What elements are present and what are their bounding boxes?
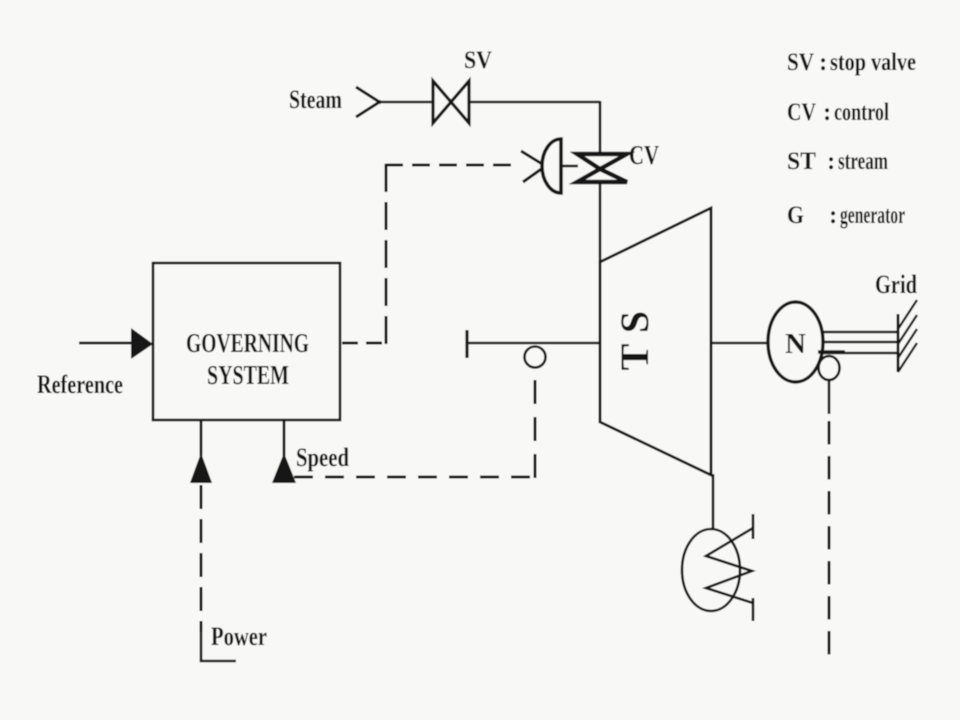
CV actuator arrow [521, 151, 547, 182]
stop valve SV [433, 81, 469, 123]
wire CV down to turbine [599, 182, 602, 263]
dashed control line box output [342, 342, 387, 345]
wire steam line to SV [378, 101, 432, 104]
svg-text:stop valve: stop valve [830, 49, 916, 76]
grid bar [897, 314, 900, 372]
power input wire [200, 420, 203, 456]
power line bottom corner [201, 630, 236, 661]
svg-text:SV: SV [464, 47, 492, 74]
bus bar thick segment [818, 350, 845, 354]
condenser ellipse [682, 529, 740, 611]
speed input wire [283, 420, 286, 456]
svg-text::: : [827, 148, 835, 175]
svg-text:ST: ST [787, 148, 816, 175]
turbine ST trapezoid [600, 208, 711, 475]
wire below pickup [828, 380, 831, 414]
svg-text:control: control [834, 99, 889, 126]
reference input wire [79, 342, 133, 345]
svg-text:N: N [785, 328, 806, 360]
svg-text:stream: stream [838, 148, 888, 175]
condenser coil zigzag [706, 528, 753, 603]
dashed control line vertical [385, 164, 388, 344]
svg-text:GOVERNING: GOVERNING [186, 328, 309, 358]
svg-text:S: S [612, 311, 657, 333]
svg-text:SV: SV [787, 49, 814, 76]
svg-text:generator: generator [840, 202, 905, 229]
power dashed line [200, 485, 203, 632]
generator speed pickup circle [819, 356, 840, 380]
svg-text::: : [819, 49, 827, 76]
dashed speed feedback horizontal [294, 476, 536, 479]
dashed feedback from generator [828, 421, 831, 666]
svg-text::: : [829, 202, 837, 229]
grid hatches [898, 300, 917, 372]
dashed control line horizontal to CV [385, 164, 518, 167]
svg-text:CV: CV [629, 140, 659, 170]
svg-text:Reference: Reference [37, 370, 123, 399]
svg-text:T: T [612, 343, 657, 370]
wire shaft right [711, 342, 769, 345]
CV actuator diaphragm [542, 139, 561, 193]
svg-text:CV: CV [787, 99, 816, 126]
generator G circle [768, 302, 823, 382]
svg-text:Grid: Grid [875, 270, 917, 299]
condenser tick bottom [752, 598, 755, 621]
wire turbine exhaust [712, 474, 715, 530]
control valve CV [577, 154, 627, 182]
svg-text:G: G [787, 202, 804, 229]
condenser tick top [752, 514, 755, 539]
wire corner down to CV [599, 101, 602, 154]
steam inlet arrow [356, 87, 381, 117]
wire SV to corner [469, 101, 600, 104]
speed pickup circle [525, 347, 546, 368]
governing system box [153, 263, 340, 420]
svg-text:Power: Power [211, 622, 267, 651]
bus bar lines [820, 332, 898, 353]
wire actuator to valve [562, 165, 578, 168]
wire shaft left [467, 342, 600, 345]
reference arrowhead [131, 328, 153, 359]
svg-text:SYSTEM: SYSTEM [207, 360, 289, 390]
power arrowhead [190, 453, 212, 483]
svg-text:Speed: Speed [296, 443, 349, 472]
svg-text:Steam: Steam [289, 85, 342, 114]
shaft end tick [465, 330, 468, 358]
speed arrowhead [272, 453, 296, 483]
dashed speed feedback vertical [534, 369, 537, 478]
svg-text::: : [823, 99, 831, 126]
